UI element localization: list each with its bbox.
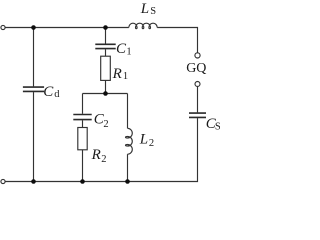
wire middle horizontal: [83, 93, 128, 95]
junction bottom Cd: [31, 179, 36, 184]
svg-text:R: R: [91, 147, 101, 163]
capacitor Cs: [189, 113, 206, 117]
wire top right segment: [157, 28, 197, 53]
junction top C1: [103, 25, 108, 30]
wire R1 to middle node: [105, 80, 107, 93]
label Cd: [43, 84, 60, 100]
svg-text:d: d: [54, 89, 60, 100]
label C2: [94, 112, 109, 130]
label C1: [116, 41, 132, 57]
label GQ: [186, 61, 206, 76]
wire C2 to R2: [82, 120, 84, 127]
wire Cd branch upper: [33, 28, 35, 87]
capacitor C2: [73, 115, 91, 120]
svg-text:S: S: [215, 121, 220, 132]
svg-text:C: C: [43, 84, 54, 100]
junction middle node: [103, 91, 108, 96]
wire L2 branch top: [127, 94, 129, 129]
resistor R2: [78, 128, 87, 150]
wire L2 to bottom: [127, 154, 129, 181]
terminal input top-left: [1, 25, 5, 29]
svg-text:C: C: [116, 41, 127, 57]
svg-text:1: 1: [123, 71, 128, 82]
wire R2 to bottom: [82, 150, 84, 182]
svg-text:S: S: [150, 6, 156, 17]
junction bottom R2: [80, 179, 85, 184]
svg-text:L: L: [139, 131, 148, 147]
svg-text:2: 2: [101, 154, 106, 165]
resistor R1: [101, 56, 111, 80]
wire right terminal to Cs: [197, 87, 199, 113]
label Cs: [206, 116, 221, 132]
label L2: [139, 131, 154, 149]
wire Cs to bottom right corner: [5, 118, 198, 181]
terminal GQ upper: [195, 53, 200, 58]
label R2: [91, 147, 107, 165]
inductor Ls: [129, 23, 157, 29]
svg-text:R: R: [112, 66, 122, 82]
junction bottom L2: [125, 179, 130, 184]
wire C2 branch top: [82, 94, 84, 114]
capacitor C1: [95, 44, 115, 48]
inductor L2: [125, 128, 132, 154]
svg-text:2: 2: [103, 119, 108, 130]
svg-text:1: 1: [126, 46, 131, 57]
wire C1 branch top: [105, 28, 107, 44]
wire top left segment: [5, 27, 129, 29]
capacitor Cd: [23, 87, 44, 91]
wire C1 to R1: [105, 49, 107, 56]
svg-text:GQ: GQ: [186, 61, 206, 76]
label R1: [112, 66, 129, 82]
terminal GQ lower: [195, 82, 200, 87]
svg-text:L: L: [140, 1, 149, 17]
label Ls: [140, 1, 157, 17]
junction top Cd: [31, 25, 36, 30]
svg-text:2: 2: [149, 138, 154, 149]
wire Cd branch lower: [33, 92, 35, 181]
terminal input bottom-left: [1, 179, 5, 183]
